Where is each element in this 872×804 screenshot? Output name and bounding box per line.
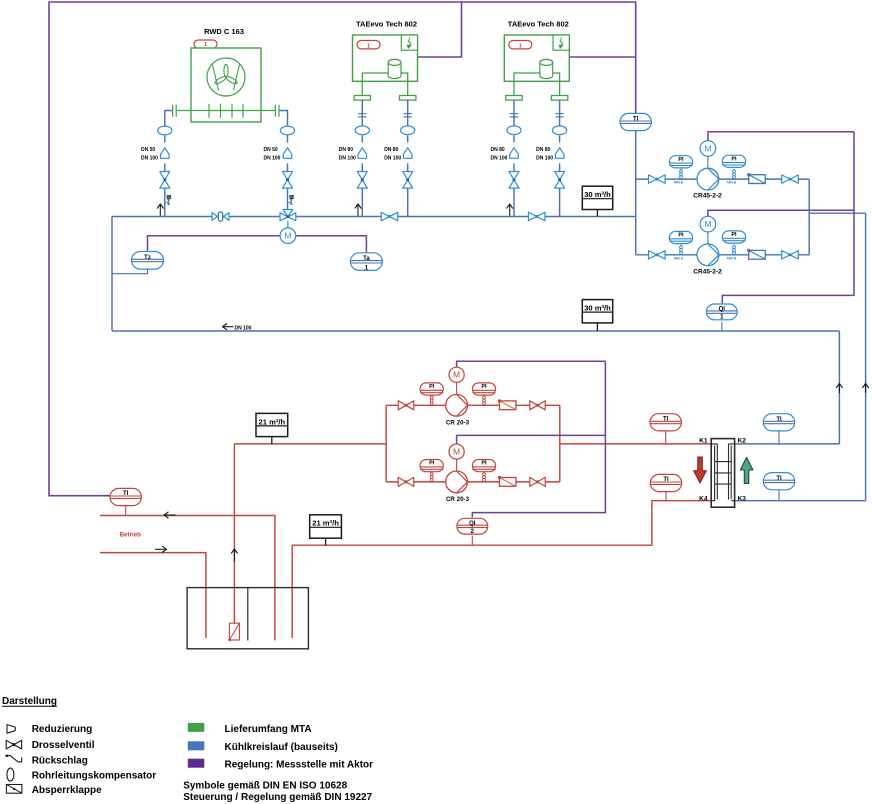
- legend label Kühlkreislauf: [225, 742, 338, 753]
- wire RWD right drop: [279, 111, 288, 210]
- wire CR45 row1 suction: [636, 178, 697, 180]
- flow meter box 30 m3/h (return): [582, 300, 612, 331]
- tag oval 1 (RWD): [194, 40, 217, 48]
- svg-text:Steuerung / Regelung gemäß DIN: Steuerung / Regelung gemäß DIN 19227: [183, 792, 372, 803]
- wire drop right (TAEevo 1): [407, 100, 409, 216]
- wire CR20 row1 suction: [386, 404, 446, 406]
- svg-text:TI: TI: [776, 476, 782, 482]
- compensator oval left (TAEevo 2): [507, 126, 521, 135]
- flange left (TAEevo 1): [354, 96, 370, 101]
- throttle valve left (TAEevo 2): [509, 172, 519, 189]
- label DN 80/DN 100 left (TAEevo 2): [491, 147, 508, 162]
- motor M (CR45 row2): [700, 216, 716, 244]
- wire CR45 row2 suction: [636, 254, 697, 256]
- svg-text:M: M: [704, 143, 711, 153]
- svg-text:M: M: [453, 370, 460, 380]
- flow arrow Betrieb return: [164, 512, 176, 518]
- wire K3 line: [735, 500, 866, 502]
- power box with lightning (TAEevo 1): [401, 35, 417, 50]
- chiller TAEevo Tech 802 #1 box: [353, 35, 418, 81]
- label DN 80/DN 100 right (TAEevo 1): [384, 147, 401, 162]
- motor M (CR45 row1): [700, 141, 716, 169]
- union ticks right (TAEevo 1): [404, 114, 412, 117]
- svg-text:MIN B: MIN B: [674, 181, 684, 185]
- hot flow arrow (red down): [694, 457, 707, 483]
- butterfly valve (CR45 row1): [747, 173, 765, 184]
- legend title Darstellung: [2, 696, 57, 707]
- svg-text:Lieferumfang MTA: Lieferumfang MTA: [225, 724, 312, 735]
- throttle valve right (TAEevo 1): [403, 172, 413, 189]
- svg-text:PI: PI: [429, 461, 435, 467]
- instrument Tz: [132, 252, 164, 270]
- svg-text:DN 100: DN 100: [235, 325, 252, 331]
- flow meter box 21 m3/h (feed): [256, 413, 288, 444]
- valve suction (CR20 row1): [398, 401, 414, 410]
- wire top supply header: [112, 216, 636, 218]
- flow arrow up (RWD left): [157, 204, 163, 217]
- flow meter box 30 m3/h (top): [582, 186, 612, 216]
- svg-text:K2: K2: [738, 438, 747, 445]
- legend label Absperrklappe: [32, 785, 102, 796]
- wire Tz stem: [112, 269, 148, 274]
- label MIN B left (CR45 row1): [674, 181, 684, 185]
- svg-text:RWD C 163: RWD C 163: [204, 27, 244, 36]
- instrument TI (K1): [650, 414, 681, 444]
- instrument TI (K3): [763, 473, 794, 501]
- flow arrow on K2 riser: [836, 384, 842, 394]
- valve discharge (CR20 row1): [530, 401, 546, 410]
- svg-text:K3: K3: [738, 495, 747, 502]
- svg-text:DN 100: DN 100: [264, 156, 281, 162]
- svg-text:PI: PI: [678, 233, 684, 239]
- reducer (RWD left): [161, 148, 170, 159]
- wire crossover to K3 riser: [809, 212, 865, 214]
- svg-text:21 m³/h: 21 m³/h: [312, 519, 339, 528]
- svg-text:TAEevo Tech 802: TAEevo Tech 802: [356, 20, 417, 29]
- label Betrieb: [120, 532, 142, 539]
- legend check valve symbol: [6, 754, 22, 762]
- label CR 20-3 row1: [446, 419, 470, 426]
- tank: [187, 588, 308, 649]
- instrument PI right (CR45 row1): [722, 155, 745, 178]
- valve suction (CR20 row2): [398, 477, 414, 486]
- svg-text:DN 80: DN 80: [339, 147, 353, 153]
- wire drop left (TAEevo 1): [361, 100, 363, 216]
- svg-text:TI: TI: [776, 417, 782, 423]
- label DN 80/DN 100 right (TAEevo 2): [536, 147, 553, 162]
- wire tank suction riser: [233, 444, 235, 640]
- legend purple square: [188, 759, 204, 767]
- instrument TI (K4): [650, 474, 681, 500]
- svg-text:DN 50: DN 50: [141, 147, 155, 153]
- valve on header (TAE1): [381, 212, 398, 220]
- valve suction (CR45 row2): [649, 251, 666, 259]
- svg-text:TI: TI: [633, 117, 639, 123]
- legend label Drosselventil: [32, 740, 95, 751]
- label K4: [699, 495, 708, 502]
- instrument TI (chiller supply): [620, 113, 651, 130]
- tag oval 1 (TAEevo 1): [357, 41, 380, 50]
- union ticks left (TAEevo 1): [358, 114, 366, 117]
- label MIN B right (CR45 row2): [727, 256, 737, 260]
- svg-text:CR 20-3: CR 20-3: [446, 496, 470, 503]
- throttle valve (RWD right): [283, 172, 293, 189]
- legend label Rückschlag: [32, 756, 88, 767]
- label TAEevo Tech 802 #2: [508, 20, 569, 29]
- wire purple actuator (CR45 row2): [708, 210, 854, 216]
- wire CR20 left manifold: [385, 405, 387, 482]
- wire CR20 right manifold: [559, 405, 561, 482]
- wire TI riser: [635, 131, 637, 255]
- svg-text:DN 80: DN 80: [384, 147, 398, 153]
- instrument Ta 1: [350, 253, 382, 272]
- flow arrow tank riser: [231, 549, 237, 562]
- compensator oval right (TAEevo 1): [401, 126, 415, 135]
- wire purple control line: Betrieb TI to border, up left side, along top: [49, 2, 636, 496]
- motor M of three-way valve: [280, 228, 296, 244]
- svg-text:30 m³/h: 30 m³/h: [584, 190, 611, 199]
- svg-text:PI: PI: [429, 384, 435, 390]
- pump CR 20-3 row1: [446, 394, 468, 416]
- instrument PI right (CR20 row1): [472, 383, 495, 405]
- wire return header DN 100: [112, 330, 839, 332]
- legend label Lieferumfang MTA: [225, 724, 312, 735]
- note DIN 19227: [183, 792, 372, 803]
- label RWD C 163: [204, 27, 244, 36]
- svg-text:21 m³/h: 21 m³/h: [259, 417, 286, 426]
- svg-text:Ta: Ta: [363, 256, 370, 262]
- compensator oval (RWD right): [280, 126, 294, 135]
- wire RWD left drop: [165, 111, 172, 217]
- svg-text:TI: TI: [123, 491, 129, 497]
- motor M (CR20 row1): [449, 367, 464, 394]
- vent (RWD left): [165, 195, 171, 205]
- svg-text:Tz: Tz: [144, 255, 151, 261]
- svg-text:Rohrleitungskompensator: Rohrleitungskompensator: [32, 771, 157, 782]
- flow arrow on K3 riser: [862, 384, 868, 394]
- compensator oval right (TAEevo 2): [553, 126, 567, 135]
- legend compensator symbol: [7, 768, 14, 781]
- union ticks right (TAEevo 2): [555, 114, 563, 117]
- reducer right (TAEevo 1): [403, 148, 412, 159]
- svg-text:DN 100: DN 100: [141, 156, 158, 162]
- label MIN B left (CR45 row2): [674, 256, 684, 260]
- reducer (RWD right): [283, 148, 292, 159]
- legend label Reduzierung: [32, 724, 93, 735]
- throttle valve left (TAEevo 1): [357, 172, 367, 189]
- compensator oval (RWD left): [158, 126, 172, 135]
- pump CR45-2-2 row2: [697, 244, 719, 266]
- wire purple QI1 net: [722, 132, 854, 304]
- foot valve in tank: [228, 623, 239, 641]
- instrument QI 2: [457, 518, 488, 535]
- note DIN 10628: [183, 781, 347, 792]
- wire drop left (TAEevo 2): [513, 100, 515, 216]
- tank symbol (TAEevo 1): [388, 59, 401, 78]
- svg-text:TI: TI: [663, 477, 669, 483]
- wire purple Tz-Ta line: [148, 236, 367, 253]
- wire QI1 stem: [721, 322, 723, 331]
- svg-text:K1: K1: [699, 438, 708, 445]
- label DN 50/DN 100 (RWD left): [141, 147, 158, 162]
- flange left (TAEevo 2): [506, 96, 522, 101]
- wire left riser: [111, 217, 113, 332]
- svg-text:Rückschlag: Rückschlag: [32, 756, 88, 767]
- cold flow arrow (green up): [740, 457, 753, 483]
- flow meter box 21 m3/h (tank): [310, 515, 342, 545]
- svg-text:CR45-2-2: CR45-2-2: [693, 268, 722, 275]
- svg-text:CR 20-3: CR 20-3: [446, 419, 470, 426]
- instrument PI right (CR20 row2): [472, 460, 495, 482]
- plate heat exchanger: [711, 439, 734, 508]
- label TAEevo Tech 802 #1: [356, 20, 417, 29]
- svg-text:MIN B: MIN B: [674, 256, 684, 260]
- wire purple actuator (CR20 row1): [457, 361, 606, 367]
- wire CR20 feed: [234, 443, 386, 445]
- svg-text:MIN B: MIN B: [727, 181, 737, 185]
- instrument PI left (CR20 row2): [420, 460, 443, 482]
- wire CR20 row2 discharge: [468, 481, 560, 483]
- dry cooler RWD C 163 box: [191, 48, 261, 122]
- svg-text:DN 50: DN 50: [264, 147, 278, 153]
- label DN 50/DN 100 (RWD right): [264, 147, 281, 162]
- reducer left (TAEevo 2): [510, 148, 519, 159]
- instrument TI (K2): [763, 414, 794, 444]
- valve discharge (CR20 row2): [530, 477, 546, 486]
- legend green square: [188, 723, 204, 731]
- motor M (CR20 row2): [449, 444, 464, 471]
- wire QI2 stem: [471, 536, 473, 546]
- flange right (TAEevo 2): [551, 96, 567, 101]
- svg-text:M: M: [453, 447, 460, 457]
- label K2: [738, 438, 747, 445]
- label K3: [738, 495, 747, 502]
- svg-text:Reduzierung: Reduzierung: [32, 724, 93, 735]
- internal piping (TAEevo 2): [514, 73, 560, 96]
- valve discharge (CR45 row2): [782, 251, 799, 259]
- wire CR20 row2 suction: [386, 481, 446, 483]
- flow arrow + label DN 100: [223, 324, 252, 332]
- svg-text:CR45-2-2: CR45-2-2: [693, 193, 722, 200]
- svg-text:Betrieb: Betrieb: [120, 532, 142, 539]
- wire CR45 row2 discharge: [719, 254, 809, 256]
- label DN 80/DN 100 left (TAEevo 1): [339, 147, 356, 162]
- expansion compensator on header: [212, 212, 229, 221]
- pump CR45-2-2 row1: [697, 168, 719, 190]
- compensator oval left (TAEevo 1): [355, 126, 369, 135]
- butterfly valve (CR45 row2): [747, 249, 765, 260]
- wire purple actuator (CR45 row1): [708, 132, 854, 141]
- svg-text:M: M: [704, 219, 711, 229]
- svg-text:K4: K4: [699, 495, 708, 502]
- union ticks left (TAEevo 2): [510, 114, 518, 117]
- svg-text:1: 1: [519, 43, 522, 49]
- wire Betrieb return: [100, 516, 275, 641]
- legend label Regelung: [225, 759, 374, 770]
- svg-text:QI: QI: [469, 521, 476, 527]
- svg-text:Symbole gemäß DIN EN ISO 10628: Symbole gemäß DIN EN ISO 10628: [183, 781, 347, 792]
- svg-text:PI: PI: [731, 232, 737, 238]
- throttle valve right (TAEevo 2): [555, 172, 565, 189]
- svg-text:Darstellung: Darstellung: [2, 696, 57, 707]
- valve suction (CR45 row1): [649, 175, 666, 183]
- svg-text:DN 80: DN 80: [536, 147, 550, 153]
- internal piping (TAEevo 1): [362, 73, 407, 96]
- instrument TI (Betrieb): [110, 488, 141, 515]
- pump CR 20-3 row2: [446, 471, 468, 493]
- three-way valve with motor: [280, 210, 296, 229]
- svg-text:DN 80: DN 80: [491, 147, 505, 153]
- fan symbol: [207, 58, 245, 96]
- legend blue square: [188, 742, 204, 750]
- vent (RWD right): [288, 195, 294, 205]
- svg-text:PI: PI: [481, 461, 487, 467]
- wire CR45 right manifold: [808, 179, 810, 255]
- reducer right (TAEevo 2): [555, 148, 564, 159]
- svg-text:PI: PI: [481, 384, 487, 390]
- label K1: [699, 438, 708, 445]
- power box with lightning (TAEevo 2): [553, 35, 569, 50]
- label CR 20-3 row2: [446, 496, 470, 503]
- instrument PI left (CR20 row1): [420, 383, 443, 405]
- label MIN B right (CR45 row1): [727, 181, 737, 185]
- legend butterfly symbol: [6, 785, 22, 794]
- flow arrow Betrieb supply: [155, 546, 167, 552]
- wire K1 line: [560, 443, 711, 445]
- svg-text:PI: PI: [731, 156, 737, 162]
- wire K2 riser: [838, 331, 840, 444]
- label CR45-2-2 row2: [693, 268, 722, 275]
- svg-text:QI: QI: [719, 307, 726, 313]
- wire purple branch to TAEevo 1: [418, 2, 462, 57]
- svg-text:Regelung: Messstelle mit Aktor: Regelung: Messstelle mit Aktor: [225, 759, 374, 770]
- wire purple QI2 net: [472, 361, 605, 517]
- svg-text:Kühlkreislauf (bauseits): Kühlkreislauf (bauseits): [225, 742, 338, 753]
- instrument PI right (CR45 row2): [722, 231, 745, 254]
- instrument QI 1: [706, 304, 737, 321]
- wire Betrieb supply: [100, 553, 206, 638]
- heat exchanger coil of RWD: [173, 104, 279, 118]
- tag oval 1 (TAEevo 2): [509, 41, 532, 50]
- flow arrow up (TAEevo 2 left): [507, 204, 513, 217]
- wire CR45 row1 discharge: [719, 178, 809, 180]
- legend reducer symbol: [7, 725, 15, 734]
- reducer left (TAEevo 1): [358, 148, 367, 159]
- instrument PI left (CR45 row2): [669, 231, 692, 254]
- wire purple branch to TAEevo 2: [569, 56, 636, 58]
- valve on header (TAE2): [528, 212, 545, 220]
- wire CR20 row1 discharge: [468, 404, 560, 406]
- svg-text:MIN B: MIN B: [727, 256, 737, 260]
- butterfly valve (CR20 row2): [498, 476, 516, 487]
- wire purple actuator (CR20 row2): [457, 435, 606, 444]
- svg-text:1: 1: [367, 43, 370, 49]
- svg-text:DN 100: DN 100: [339, 156, 356, 162]
- wire K3 riser (right edge): [865, 213, 867, 501]
- svg-text:DN 100: DN 100: [384, 156, 401, 162]
- svg-text:TI: TI: [663, 416, 669, 422]
- svg-text:DN 100: DN 100: [491, 156, 508, 162]
- tank symbol (TAEevo 2): [540, 59, 553, 78]
- legend label Rohrleitungskompensator: [32, 771, 157, 782]
- flange right (TAEevo 1): [400, 96, 416, 101]
- wire K4 line: [292, 501, 711, 638]
- svg-text:Absperrklappe: Absperrklappe: [32, 785, 102, 796]
- throttle valve (RWD left): [160, 172, 170, 189]
- label CR45-2-2 row1: [693, 193, 722, 200]
- valve discharge (CR45 row1): [782, 175, 799, 183]
- legend throttle symbol: [6, 740, 21, 749]
- svg-text:M: M: [284, 231, 291, 241]
- svg-text:30 m³/h: 30 m³/h: [584, 304, 611, 313]
- wire K2 line: [735, 443, 840, 445]
- chiller TAEevo Tech 802 #2 box: [504, 35, 569, 81]
- wire drop right (TAEevo 2): [559, 100, 561, 216]
- svg-text:TAEevo Tech 802: TAEevo Tech 802: [508, 20, 569, 29]
- flow arrow up (TAEevo 1 left): [355, 204, 361, 217]
- butterfly valve (CR20 row1): [498, 399, 516, 410]
- svg-text:PI: PI: [678, 157, 684, 163]
- instrument PI left (CR45 row1): [669, 156, 692, 179]
- svg-text:DN 100: DN 100: [536, 156, 553, 162]
- svg-text:Drosselventil: Drosselventil: [32, 740, 95, 751]
